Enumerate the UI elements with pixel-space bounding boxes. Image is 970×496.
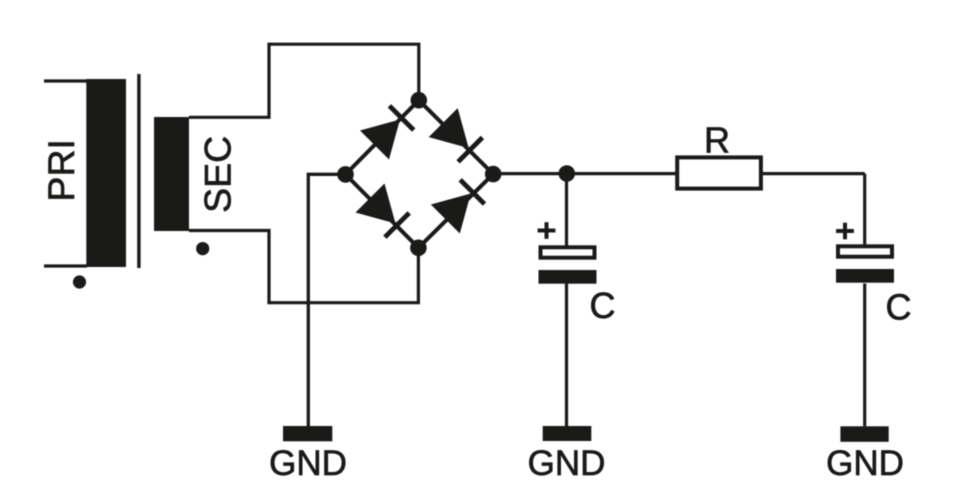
svg-text:C: C [886,287,912,328]
svg-text:GND: GND [269,444,347,483]
wire down to C2 top plate [863,174,866,245]
capacitor C1 bottom plate [539,270,597,284]
wire bridge left node to GND [308,174,345,426]
wire C1 to GND [565,284,568,427]
transformer primary winding bar [86,79,126,267]
svg-text:GND: GND [528,444,606,483]
capacitor C2 bottom plate [836,269,894,283]
wire PRI top lead [44,79,87,82]
wire bridge branch left-top [346,100,419,174]
wire C2 to GND [863,284,866,427]
transformer secondary winding bar [154,117,189,231]
node bridge bottom (AC) [410,240,427,257]
SEC phase dot [196,242,209,255]
wire bridge branch left-bottom [346,174,419,247]
node bridge top (AC) [411,92,428,109]
wire bridge right node to resistor [493,172,677,175]
wire resistor to C2 [762,172,865,175]
diode D1 (left node to top node) [360,106,414,160]
ground symbol (bridge minus) [283,426,332,441]
wire bridge branch top-right [419,100,493,174]
wire SEC bottom lead to bridge bottom node [189,231,418,303]
wire junction to C1 top plate [565,174,568,247]
transformer core line [137,74,140,268]
svg-text:R: R [704,119,730,160]
capacitor C2 plus sign [836,223,854,240]
node junction at C1 [559,165,576,182]
node bridge right (plus) [485,166,502,183]
svg-text:C: C [590,285,616,326]
diode D4 (bottom node to right node) [431,180,485,234]
resistor R [677,157,761,188]
capacitor C2 top plate [838,246,892,256]
capacitor C1 plus sign [538,222,556,239]
ground symbol (C1) [543,426,592,441]
diode D3 (left node to bottom node) [356,184,410,238]
PRI phase dot [73,275,86,288]
ground symbol (C2) [840,426,888,442]
node bridge left (minus) [337,166,354,183]
svg-text:GND: GND [826,444,904,483]
wire bridge branch bottom-right [418,174,493,248]
wire SEC top lead to bridge top node [189,44,419,117]
svg-text:PRI: PRI [40,139,82,202]
wire PRI bottom lead [44,264,87,267]
svg-text:SEC: SEC [196,136,238,213]
capacitor C1 top plate [541,247,595,257]
diode D2 (top node to right node) [429,108,483,162]
